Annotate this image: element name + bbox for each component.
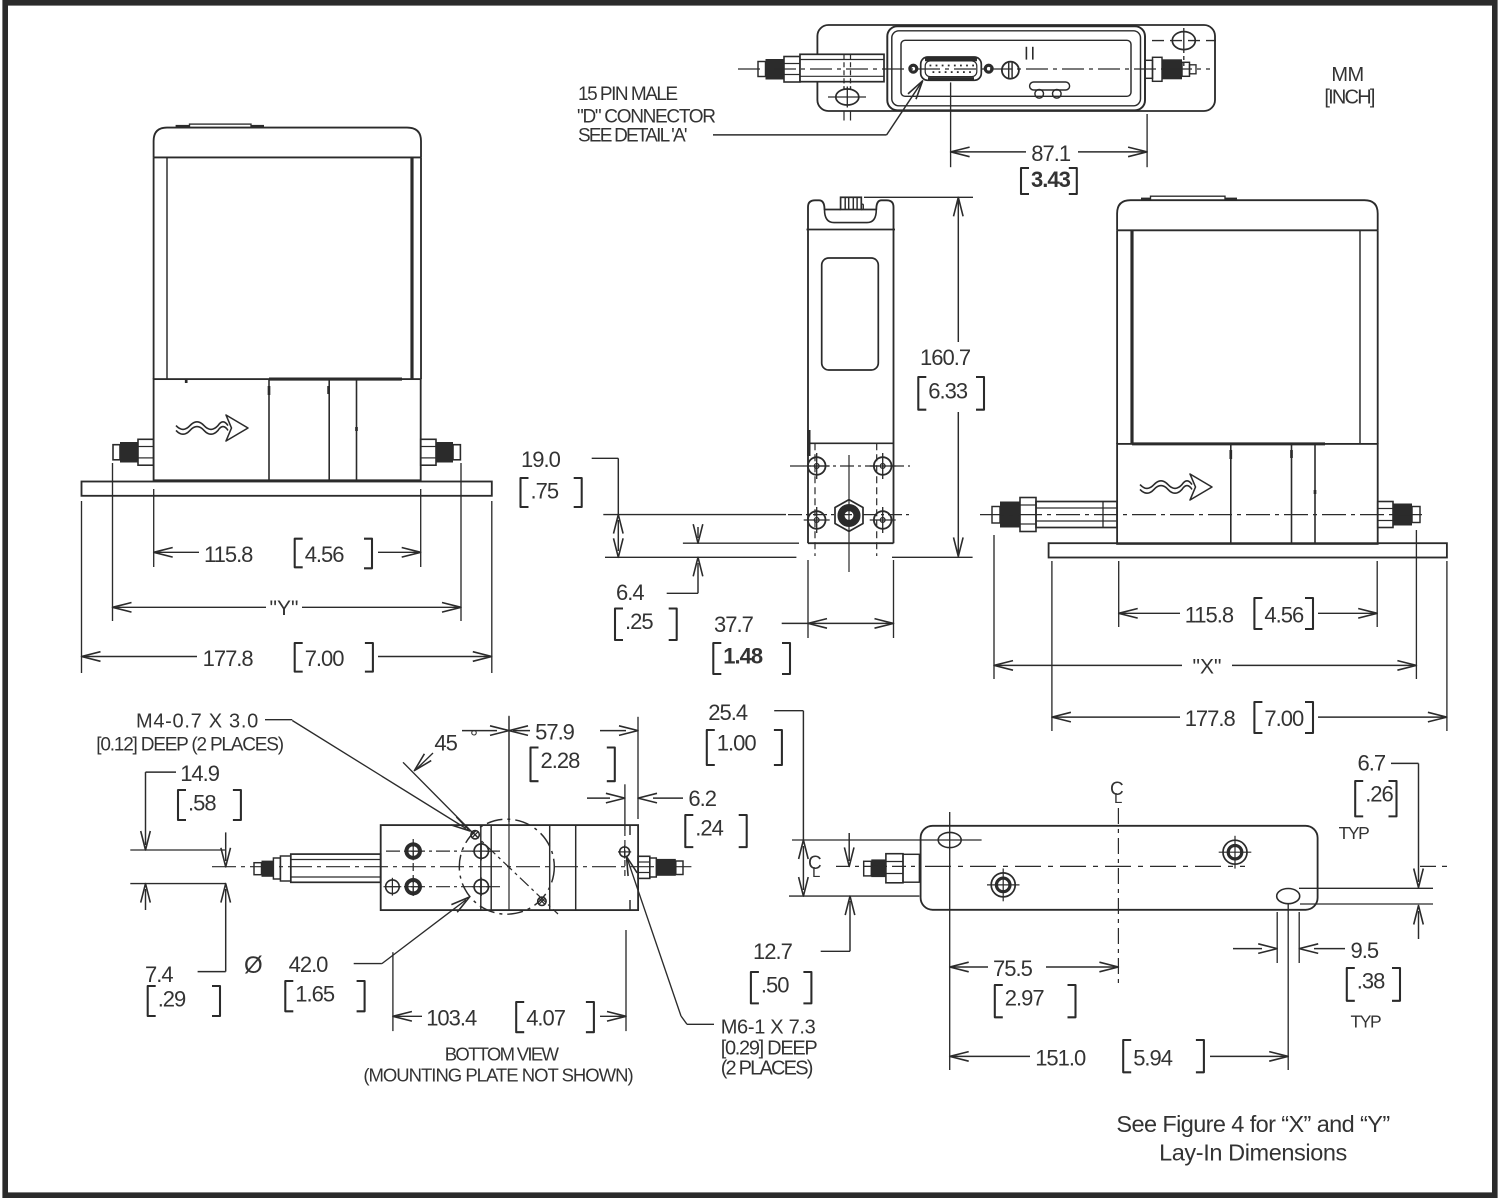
bottom view: mounting bolt lower (dark ring) [406, 880, 420, 894]
dimension 7.4 [.29] [225, 832, 227, 861]
dimension 177.8 [7.00] under front view Y [82, 656, 198, 658]
dimension 19.0 [.75] leader and arrows [592, 457, 619, 459]
dimension 115.8 [4.56] under front view Y [154, 551, 199, 553]
svg-text:See Figure 4 for “X” and “Y”: See Figure 4 for “X” and “Y” [1116, 1111, 1389, 1137]
plate view: slot 1 vertical extension line [949, 812, 951, 1070]
svg-text:4.56: 4.56 [1264, 603, 1304, 628]
top view: vent tick marks [1025, 47, 1027, 60]
front view X: centerline [980, 514, 1425, 516]
svg-text:7.4: 7.4 [145, 962, 173, 987]
front view X: seam tick marks [1229, 450, 1232, 459]
side view: display window [822, 258, 879, 370]
svg-text:2.97: 2.97 [1005, 986, 1045, 1011]
front view Y: cap (rounded top cover) [154, 128, 421, 158]
bottom view: port row reference lines [130, 849, 226, 851]
plate view: fitting centerline [836, 865, 920, 867]
side view: top connector block with hatching [841, 197, 862, 209]
bottom view: right edge step lines [629, 825, 631, 835]
svg-text:.50: .50 [761, 973, 789, 998]
bottom view: M4 tapped hole lower [538, 897, 546, 905]
svg-text:BOTTOM VIEW: BOTTOM VIEW [445, 1044, 560, 1065]
side view: base plate top line (left) [683, 542, 799, 544]
top view: plate hole (left, with hidden lines) [836, 89, 859, 105]
svg-text:1.00: 1.00 [717, 731, 757, 756]
svg-text:"Y": "Y" [270, 597, 299, 620]
front view Y: inlet fitting (left) [113, 445, 120, 460]
side view: valve block top line [808, 442, 894, 444]
front view Y: top strip connector [176, 125, 189, 128]
svg-text:12.7: 12.7 [753, 939, 793, 964]
top view: slotted potentiometer screw [1002, 62, 1019, 79]
svg-text:45: 45 [434, 731, 457, 756]
dimension 160.7 [6.33] vertical [864, 196, 973, 198]
dimension X under front view X [994, 664, 1182, 666]
top view: centerline [738, 68, 1210, 70]
side view: bolt bottom-right [874, 511, 892, 529]
front view X: cap (rounded top cover) [1117, 200, 1378, 230]
front view Y: outlet fitting (right) [421, 439, 436, 465]
svg-text:.58: .58 [188, 791, 216, 816]
svg-text:115.8: 115.8 [1185, 603, 1234, 628]
plate view: central vertical centerline dashed [1117, 808, 1119, 985]
svg-text:7.00: 7.00 [305, 646, 345, 671]
svg-text:87.1: 87.1 [1031, 141, 1071, 166]
svg-text:1.48: 1.48 [723, 644, 763, 669]
svg-text:5.94: 5.94 [1133, 1046, 1173, 1071]
side view: bolt top-left [808, 457, 826, 475]
front view Y: mounting base plate [82, 482, 492, 496]
dimension 75.5 [2.97] [950, 966, 988, 968]
bottom view: pilot hole crosshair (left) [386, 880, 400, 894]
svg-text:[INCH]: [INCH] [1324, 87, 1374, 109]
svg-text:160.7: 160.7 [920, 345, 971, 370]
bottom view: inlet tube (left) [254, 863, 262, 875]
top view: body outline [887, 26, 1145, 110]
side view: hidden edge dashed lines [814, 443, 816, 556]
plate view: slot 2 vertical extension line [1287, 903, 1289, 1070]
top view: connector jack screw left [909, 64, 918, 73]
dimension 25.4 [1.00] [774, 710, 803, 712]
svg-text:6.2: 6.2 [688, 786, 716, 811]
side view: bolt bottom-left [808, 511, 826, 529]
side view: fitting horizontal centerline [603, 514, 786, 516]
svg-text:177.8: 177.8 [203, 646, 254, 671]
bottom view: M6 tapped hole (right) [620, 847, 630, 857]
svg-text:M6-1 X 7.3: M6-1 X 7.3 [721, 1017, 816, 1039]
front view Y: block division lines [268, 379, 270, 480]
front view Y: valve block [154, 379, 421, 480]
svg-text:177.8: 177.8 [1185, 706, 1236, 731]
side view: fitting vertical centerline [848, 455, 850, 572]
svg-text:6.7: 6.7 [1358, 751, 1386, 776]
svg-text:.24: .24 [695, 816, 723, 841]
svg-text:14.9: 14.9 [180, 761, 220, 786]
svg-text:.38: .38 [1357, 969, 1385, 994]
side view: base plate bottom line [605, 556, 796, 558]
bottom view: sensor ports at flange [474, 844, 488, 858]
svg-text:115.8: 115.8 [204, 542, 253, 567]
front view Y: extension lines for dimensions [112, 463, 114, 621]
svg-text:.25: .25 [625, 609, 653, 634]
svg-text:(MOUNTING PLATE NOT SHOWN): (MOUNTING PLATE NOT SHOWN) [363, 1065, 633, 1086]
dimension 6.2 [.24] [624, 784, 626, 830]
dimension 87.1 [3.43] on top view [950, 82, 952, 167]
svg-text:103.4: 103.4 [426, 1006, 477, 1031]
dimension 9.5 [.38] TYP [1276, 912, 1278, 963]
bottom view: mounting bolt upper (dark ring) [406, 844, 420, 858]
bottom view: main axis centerline [212, 866, 691, 868]
top view: inlet fitting with long tube (left) [758, 62, 766, 77]
plate view: slot 1 centerline horizontal [792, 839, 982, 841]
svg-text:25.4: 25.4 [708, 700, 748, 725]
side view: cap parting line [807, 229, 896, 231]
svg-text:19.0: 19.0 [521, 447, 561, 472]
top view: label slot and indicator holes [1030, 82, 1070, 90]
front view Y: seam tick marks [185, 380, 188, 383]
side view: seam tick on left edge [807, 430, 810, 456]
svg-text:(2 PLACES): (2 PLACES) [721, 1058, 813, 1080]
dimension 6.4 [.25] arrows [697, 527, 699, 538]
svg-text:42.0: 42.0 [289, 952, 329, 977]
svg-text:6.4: 6.4 [616, 580, 644, 605]
svg-text:[0.12] DEEP (2 PLACES): [0.12] DEEP (2 PLACES) [96, 735, 283, 756]
svg-text:9.5: 9.5 [1351, 938, 1379, 963]
dimension 37.7 [1.48] with extension lines [807, 560, 809, 638]
top view: mounting plate outline [817, 25, 1215, 111]
front view Y: body side walls [153, 157, 155, 379]
plate view: slot hole bottom-right [1277, 889, 1300, 904]
side view: body outline with saddle top [808, 200, 841, 543]
dimension 115.8 [4.56] under front view X [1119, 612, 1180, 614]
svg-text:1.65: 1.65 [295, 982, 335, 1007]
front view X: inlet fitting with long tube (left) [992, 507, 1000, 524]
side view: bolt top-right [874, 457, 892, 475]
svg-text:57.9: 57.9 [535, 720, 575, 745]
svg-text:.26: .26 [1365, 782, 1393, 807]
svg-text:"X": "X" [1193, 656, 1222, 679]
dimension 177.8 [7.00] under front view X [1052, 716, 1180, 718]
plate view: slot 2 centerline and tangent lines [789, 895, 919, 897]
bottom view: bolt circle Dia 42.0 (dashed) [459, 819, 554, 914]
dimension 103.4 [4.07] [392, 952, 394, 1031]
dimension 14.9 [.58] [146, 771, 177, 773]
svg-text:TYP: TYP [1351, 1012, 1382, 1032]
svg-text:75.5: 75.5 [993, 956, 1033, 981]
bottom view: vertical centerline of circle [508, 717, 510, 910]
svg-text:[0.29] DEEP: [0.29] DEEP [721, 1038, 818, 1060]
front view X: valve block [1117, 444, 1378, 544]
front view X: top strip connector [1141, 198, 1151, 201]
svg-text:L: L [812, 864, 820, 881]
plate view: screw with washer (lower-left) [991, 873, 1015, 897]
svg-text:2.28: 2.28 [541, 748, 581, 773]
front view X: block division lines [1230, 444, 1232, 544]
dimension 151.0 [5.94] [950, 1055, 1030, 1057]
top view: outlet fitting (right) [1145, 60, 1153, 78]
svg-text:Lay-In Dimensions: Lay-In Dimensions [1159, 1140, 1347, 1166]
bottom view: hidden centerlines of bolts [412, 839, 414, 899]
bottom view: 45 degree construction line [403, 762, 470, 830]
front view Y: flow direction arrow [176, 422, 228, 430]
label M6-1 X 7.3 [0.29] DEEP (2 PLACES) with leader [627, 857, 638, 877]
svg-text:15 PIN MALE: 15 PIN MALE [578, 84, 677, 105]
side view: saddle recess channel [825, 210, 877, 223]
svg-text:Ø: Ø [244, 952, 262, 979]
bottom view: outlet fitting (right) [638, 856, 650, 878]
svg-text:SEE DETAIL 'A': SEE DETAIL 'A' [578, 126, 687, 147]
svg-text:TYP: TYP [1339, 823, 1370, 843]
top view: 15-pin D connector [921, 57, 982, 80]
plate view: screw with washer (upper-right) [1223, 840, 1247, 864]
dimension 12.7 [.50] [848, 833, 850, 861]
bottom view: flange and port division lines [480, 825, 482, 910]
svg-text:"D" CONNECTOR: "D" CONNECTOR [577, 107, 715, 128]
plate view: mounting plate outline [921, 826, 1318, 910]
svg-text:37.7: 37.7 [714, 612, 754, 637]
bottom view: horizontal centerline upper ports [386, 850, 500, 852]
dimension 57.9 [2.28] [508, 716, 510, 822]
bottom view: M4 tapped hole upper [471, 831, 479, 839]
svg-text:3.43: 3.43 [1031, 167, 1071, 192]
svg-text:4.56: 4.56 [305, 542, 345, 567]
plate view: slot hole top-left [938, 832, 961, 847]
svg-text:151.0: 151.0 [1035, 1046, 1086, 1071]
svg-text:4.07: 4.07 [526, 1006, 566, 1031]
side view: inlet hex fitting [835, 500, 863, 532]
front view X: flow direction arrow [1140, 481, 1192, 489]
front view X: extension lines for dimensions [993, 535, 995, 679]
bottom view: horizontal centerline lower ports [386, 886, 500, 888]
front view X: mounting base plate [1049, 543, 1447, 557]
svg-text:M4-0.7 X 3.0: M4-0.7 X 3.0 [136, 711, 259, 733]
top view: connector jack screw right [984, 64, 993, 73]
svg-text:MM: MM [1331, 64, 1363, 86]
bottom view: body outline [381, 825, 638, 910]
svg-text:6.33: 6.33 [928, 379, 968, 404]
side view: bolt row centerline upper [790, 465, 910, 467]
svg-text:.75: .75 [531, 479, 559, 504]
svg-text:.29: .29 [158, 987, 186, 1012]
plate view: inlet fitting stub (left) [864, 861, 872, 876]
side view: bottom edge [808, 542, 894, 544]
front view X: body side walls [1116, 230, 1118, 444]
svg-text:7.00: 7.00 [1264, 706, 1304, 731]
dimension Y under front view Y [113, 606, 267, 608]
front view X: outlet fitting (right) [1378, 502, 1393, 528]
svg-text:L: L [1114, 790, 1122, 807]
top view: plate hole (right crosshair) [1172, 32, 1195, 50]
label leader: 15 pin male D connector [713, 134, 887, 136]
